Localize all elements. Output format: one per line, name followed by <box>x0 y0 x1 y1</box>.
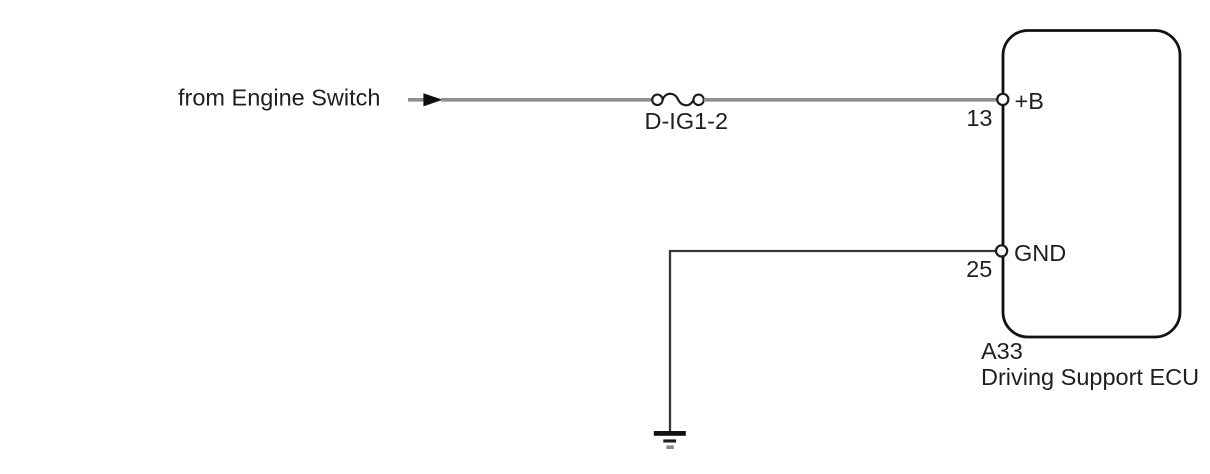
ground symbol bar 3 <box>666 445 673 449</box>
svg-text:from Engine Switch: from Engine Switch <box>178 85 380 111</box>
fuse D-IG1-2 right terminal circle <box>693 95 703 105</box>
wire: GND from pin 25 to ground <box>670 251 996 431</box>
wire: +B feed from arrow to fuse <box>441 98 653 102</box>
svg-text:D-IG1-2: D-IG1-2 <box>645 108 729 134</box>
svg-text:13: 13 <box>966 105 992 131</box>
svg-text:A33: A33 <box>981 338 1023 364</box>
fuse D-IG1-2 left terminal circle <box>652 95 662 105</box>
svg-text:+B: +B <box>1015 88 1044 114</box>
svg-text:Driving Support ECU: Driving Support ECU <box>981 364 1199 390</box>
svg-text:25: 25 <box>966 256 992 282</box>
pin 13 terminal circle (+B) <box>997 94 1008 105</box>
wire: arrow lead-in segment <box>408 98 424 102</box>
arrowhead: signal direction into wire <box>423 93 442 106</box>
svg-text:GND: GND <box>1014 240 1066 266</box>
wire: fuse to ECU pin 13 <box>704 98 997 102</box>
ground symbol bar 1 <box>654 431 686 436</box>
pin 25 terminal circle (GND) <box>996 245 1007 256</box>
fuse D-IG1-2 element (squiggle) <box>663 94 694 106</box>
ground symbol bar 2 <box>663 439 676 442</box>
ECU box A33 <box>1003 31 1180 338</box>
